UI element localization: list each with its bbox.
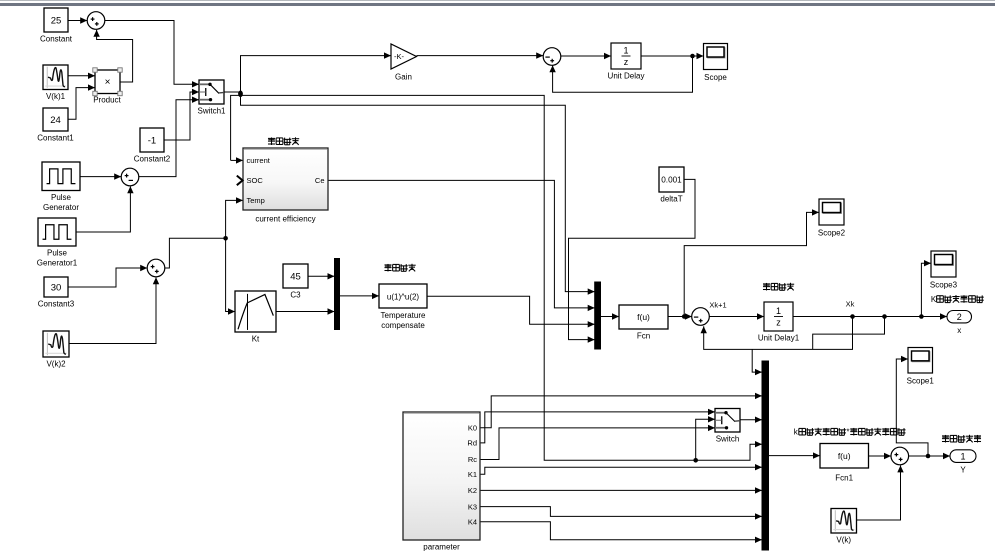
svg-text:2: 2: [957, 312, 962, 322]
svg-text:Y: Y: [960, 465, 966, 474]
svg-text:Scope1: Scope1: [907, 377, 935, 386]
svg-text:Fcn1: Fcn1: [835, 474, 853, 483]
svg-text:K0: K0: [468, 424, 477, 433]
svg-text:Xk+1: Xk+1: [709, 301, 726, 310]
svg-text:Unit Delay: Unit Delay: [608, 72, 645, 81]
svg-text:-1: -1: [148, 135, 156, 146]
svg-text:Switch: Switch: [716, 435, 740, 444]
svg-text:1: 1: [960, 451, 965, 461]
svg-text:K2: K2: [468, 486, 477, 495]
svg-text:x: x: [957, 326, 961, 335]
svg-text:V(k)1: V(k)1: [46, 92, 66, 101]
svg-text:Rc: Rc: [468, 455, 477, 464]
svg-text:Constant: Constant: [40, 35, 73, 44]
svg-text:f(u): f(u): [838, 451, 851, 461]
svg-text:-K-: -K-: [394, 52, 405, 61]
svg-text:Pulse: Pulse: [47, 249, 68, 258]
svg-text:Scope3: Scope3: [930, 281, 958, 290]
svg-text:Temperature: Temperature: [381, 311, 426, 320]
svg-text:C3: C3: [290, 291, 301, 300]
svg-text:1: 1: [623, 45, 628, 55]
svg-text:Pulse: Pulse: [51, 193, 72, 202]
svg-text:parameter: parameter: [423, 543, 460, 552]
svg-text:Kt: Kt: [252, 335, 260, 344]
svg-text:Generator1: Generator1: [37, 259, 78, 268]
svg-text:Unit Delay1: Unit Delay1: [758, 334, 800, 343]
svg-text:Gain: Gain: [395, 73, 412, 82]
svg-text:Scope2: Scope2: [818, 229, 846, 238]
svg-text:SOC: SOC: [247, 176, 264, 185]
svg-text:z: z: [776, 318, 781, 328]
svg-text:K4: K4: [468, 518, 477, 527]
svg-text:K: K: [931, 295, 937, 304]
svg-text:×: ×: [105, 77, 111, 88]
svg-text:25: 25: [51, 15, 62, 26]
svg-text:f(u): f(u): [637, 312, 650, 322]
svg-text:V(k)2: V(k)2: [46, 360, 66, 369]
svg-text:current efficiency: current efficiency: [255, 215, 315, 224]
svg-text:deltaT: deltaT: [660, 195, 682, 204]
svg-text:1: 1: [776, 306, 781, 316]
svg-text:K1: K1: [468, 470, 477, 479]
svg-text:V(k): V(k): [836, 536, 851, 545]
svg-text:45: 45: [290, 271, 301, 282]
svg-text:u(1)^u(2): u(1)^u(2): [387, 292, 420, 301]
svg-text:K3: K3: [468, 502, 477, 511]
svg-text:Constant3: Constant3: [38, 300, 75, 309]
svg-text:24: 24: [50, 115, 61, 126]
svg-text:Constant1: Constant1: [37, 134, 74, 143]
svg-text:*: *: [846, 428, 849, 437]
svg-text:Switch1: Switch1: [197, 107, 226, 116]
svg-text:Fcn: Fcn: [637, 332, 650, 341]
svg-text:current: current: [247, 156, 271, 165]
svg-text:Rd: Rd: [467, 439, 477, 448]
svg-text:Generator: Generator: [43, 203, 79, 212]
svg-text:0.001: 0.001: [661, 175, 682, 184]
svg-text:Constant2: Constant2: [134, 155, 171, 164]
svg-text:Product: Product: [93, 96, 121, 105]
svg-text:30: 30: [51, 282, 62, 293]
svg-text:Temp: Temp: [247, 196, 265, 205]
svg-text:compensate: compensate: [381, 321, 425, 330]
svg-text:Scope: Scope: [704, 73, 727, 82]
svg-text:Xk: Xk: [846, 300, 855, 309]
svg-text:z: z: [624, 57, 629, 67]
svg-text:Ce: Ce: [315, 176, 325, 185]
